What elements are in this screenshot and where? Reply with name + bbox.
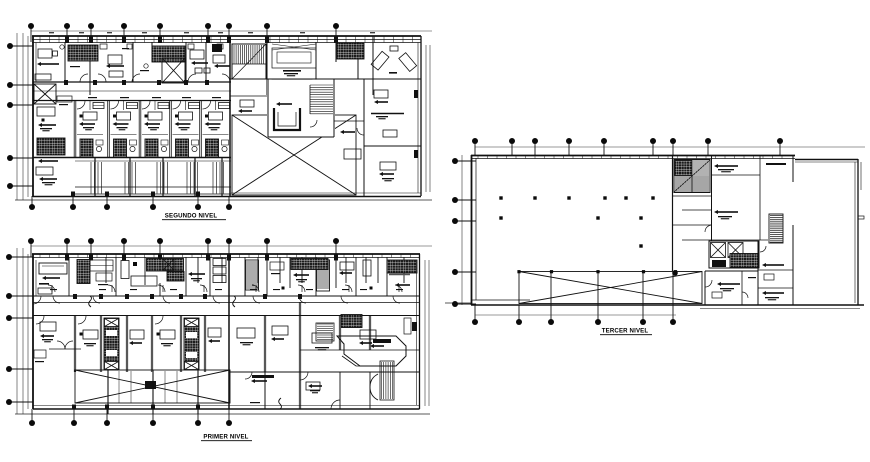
plan2 chamfered room	[337, 336, 406, 366]
plan2 top band fixtures left	[39, 263, 67, 274]
plan2 mid dark hatch	[341, 315, 362, 328]
plan2 top wall window ticks	[40, 254, 411, 258]
plan1 stair block	[232, 44, 266, 79]
plan3 stair right	[769, 214, 783, 243]
plan3 interior column dot	[672, 270, 678, 276]
plan2 cross box posts	[107, 370, 109, 414]
plan3 room label dashes	[714, 164, 718, 168]
plan2 stair block left	[246, 260, 259, 290]
plan1 band A partitions	[64, 42, 66, 82]
plan2 middle band partitions	[73, 315, 75, 372]
plan1 band A dark closet hatch 1	[68, 45, 98, 61]
plan2 wall column blobs	[65, 255, 69, 261]
svg-text:SEGUNDO NIVEL: SEGUNDO NIVEL	[165, 213, 218, 220]
plan1 left column dots	[10, 45, 33, 47]
plan1 sofa U	[274, 108, 300, 130]
plan2 stair block mid	[317, 260, 330, 291]
plan2 left rooms mid	[33, 296, 41, 304]
plan1 band A corridor door arcs	[80, 74, 88, 82]
plan3 bottom room extras	[712, 292, 722, 298]
plan1 left dark dining hatch	[37, 138, 65, 155]
plan2 top band dark kitchen hatch	[147, 259, 184, 272]
plan2 outer walls	[32, 253, 420, 255]
plan2 inner wall lines	[35, 260, 37, 296]
plan3 below-wall dimension line	[475, 314, 676, 316]
plan1 party wall	[229, 36, 231, 196]
plan2 left column dots	[9, 256, 33, 258]
plan1 sofa group	[272, 80, 312, 92]
plan1 band A dark closet hatch 3	[337, 43, 364, 59]
plan1 bottom column dots	[31, 196, 33, 207]
plan1 terrace room	[358, 78, 421, 80]
plan1 band B dimension dashes	[88, 97, 97, 98]
plan1 lobby ceiling	[272, 48, 316, 68]
plan1 band B apartment partitions	[73, 101, 75, 158]
plan1 inner wall lines	[35, 43, 37, 83]
plan2 left double door	[57, 341, 65, 349]
plan1 right zone hall couch	[344, 149, 361, 159]
svg-text:PRIMER NIVEL: PRIMER NIVEL	[203, 434, 248, 441]
plan2 bottom column dots	[31, 409, 33, 423]
plan segundo nivel construction frame	[31, 30, 432, 32]
plan2 kitchen strip 1	[104, 318, 119, 370]
plan3 interior column squares row 1	[499, 196, 502, 199]
plan1 stair mid treads	[310, 85, 333, 114]
plan2 bottom band rooms	[264, 372, 266, 409]
plan1 top column dots	[30, 26, 32, 42]
plan2 mid stair treads	[316, 323, 334, 341]
plan1 band A furniture	[38, 49, 52, 58]
plan1 outer walls	[32, 35, 421, 37]
plan2 kitchen strip 2	[184, 318, 199, 370]
plan1 dimension dashes	[49, 32, 54, 33]
plan2 top band room door arcs	[48, 285, 55, 292]
plan2 top band tiny labels	[50, 289, 57, 290]
plan3 top column dots	[474, 141, 476, 156]
plan1 right zone partitions	[363, 79, 365, 196]
plan1 right zone middle block	[267, 80, 335, 137]
plan2 top band door leaf marks	[51, 285, 53, 292]
plan3 outer walls	[471, 155, 795, 157]
plan tercer nivel construction frame	[475, 146, 865, 148]
plan1 right zone furniture	[240, 100, 254, 107]
plan3 interior column squares row 2	[499, 216, 502, 219]
plan3 interior extra column square	[639, 244, 642, 247]
plan3 top wall window ticks	[478, 156, 782, 159]
plan2 cross box rails	[118, 371, 120, 403]
plan3 cluster walls	[672, 155, 674, 271]
plan3 inner wall lines	[854, 162, 856, 303]
plan1 left room furniture	[34, 84, 56, 104]
plan primer nivel construction frame	[31, 245, 432, 247]
plan2 top band cabinets	[213, 259, 226, 283]
plan1 band A sinks and closets	[100, 44, 107, 49]
plan3 cross box column squares	[517, 270, 520, 273]
plan3 bottom column dots	[474, 305, 476, 322]
plan2 cross box center blob	[145, 381, 156, 389]
plan2 middle band furniture	[78, 316, 86, 324]
plan2 top band extra fixtures	[96, 273, 112, 281]
plan1 top wall window ticks	[40, 36, 221, 43]
plan1 corridor walls	[33, 81, 231, 83]
plan2 top column dots	[30, 241, 32, 257]
plan2 corridor door arcs	[53, 296, 60, 303]
plan2 top band right fixtures	[291, 259, 328, 270]
plan2 corridor walls	[33, 295, 419, 297]
plan2 top band partitions	[68, 257, 70, 296]
plan1 band A elevator xbox	[162, 58, 185, 83]
svg-text:TERCER NIVEL: TERCER NIVEL	[602, 328, 649, 335]
plan1 balcony rails	[33, 157, 231, 159]
plan2 bottom vertical hatch	[380, 361, 394, 400]
plan1 right zone big cross box	[232, 115, 356, 195]
plan3 stair hatch block	[674, 160, 710, 193]
plan1 band B room interiors	[77, 101, 85, 109]
plan1 band A dark closet hatch 2	[152, 46, 185, 62]
plan3 door arcs	[705, 225, 712, 232]
plan3 parking cross box	[519, 272, 702, 304]
plan3 left column dots	[455, 160, 476, 162]
plan1 wall column blobs	[65, 37, 69, 44]
plan2 bottom cross box	[75, 370, 230, 403]
plan3 elevator block	[709, 241, 759, 268]
